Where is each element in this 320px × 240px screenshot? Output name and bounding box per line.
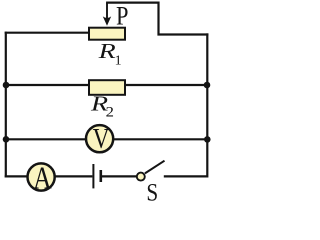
- svg-text:2: 2: [106, 105, 114, 121]
- svg-text:R: R: [97, 40, 115, 63]
- wire: ammeter to battery: [54, 175, 92, 177]
- svg-text:1: 1: [115, 54, 122, 69]
- svg-text:S: S: [146, 179, 158, 201]
- wire: left vertical bus: [5, 32, 7, 178]
- battery short plate: [100, 170, 103, 182]
- wire: right vertical bus: [206, 33, 208, 177]
- node: junction left V: [3, 136, 10, 143]
- node: junction right V: [204, 136, 211, 143]
- battery long plate: [92, 164, 94, 188]
- svg-text:V: V: [93, 123, 110, 155]
- wiper arrow shaft P: [106, 3, 108, 18]
- wire: R2 to right rail: [124, 84, 208, 86]
- resistor R1 (potentiometer body): [89, 28, 125, 40]
- wire: bottom left to ammeter: [5, 175, 28, 177]
- resistor R2: [89, 80, 125, 95]
- wire: switch to right rail: [164, 175, 208, 177]
- wire: row2 left to R2: [5, 84, 90, 86]
- wiper arrowhead: [103, 16, 111, 25]
- wire: row3 left to voltmeter: [5, 138, 87, 140]
- wire: top rail to R1 left terminal: [5, 32, 89, 34]
- wire: voltmeter to right rail: [113, 138, 208, 140]
- svg-text:P: P: [116, 2, 128, 31]
- switch lever: [145, 161, 165, 174]
- voltmeter V: [86, 123, 113, 155]
- wire: battery to switch: [102, 175, 137, 177]
- svg-text:A: A: [33, 161, 52, 196]
- node: junction left R2: [3, 82, 10, 89]
- switch pivot: [137, 173, 145, 181]
- ammeter A: [27, 161, 54, 196]
- wire: wiper to right rail (step): [106, 3, 208, 35]
- node: junction right R2: [204, 82, 211, 89]
